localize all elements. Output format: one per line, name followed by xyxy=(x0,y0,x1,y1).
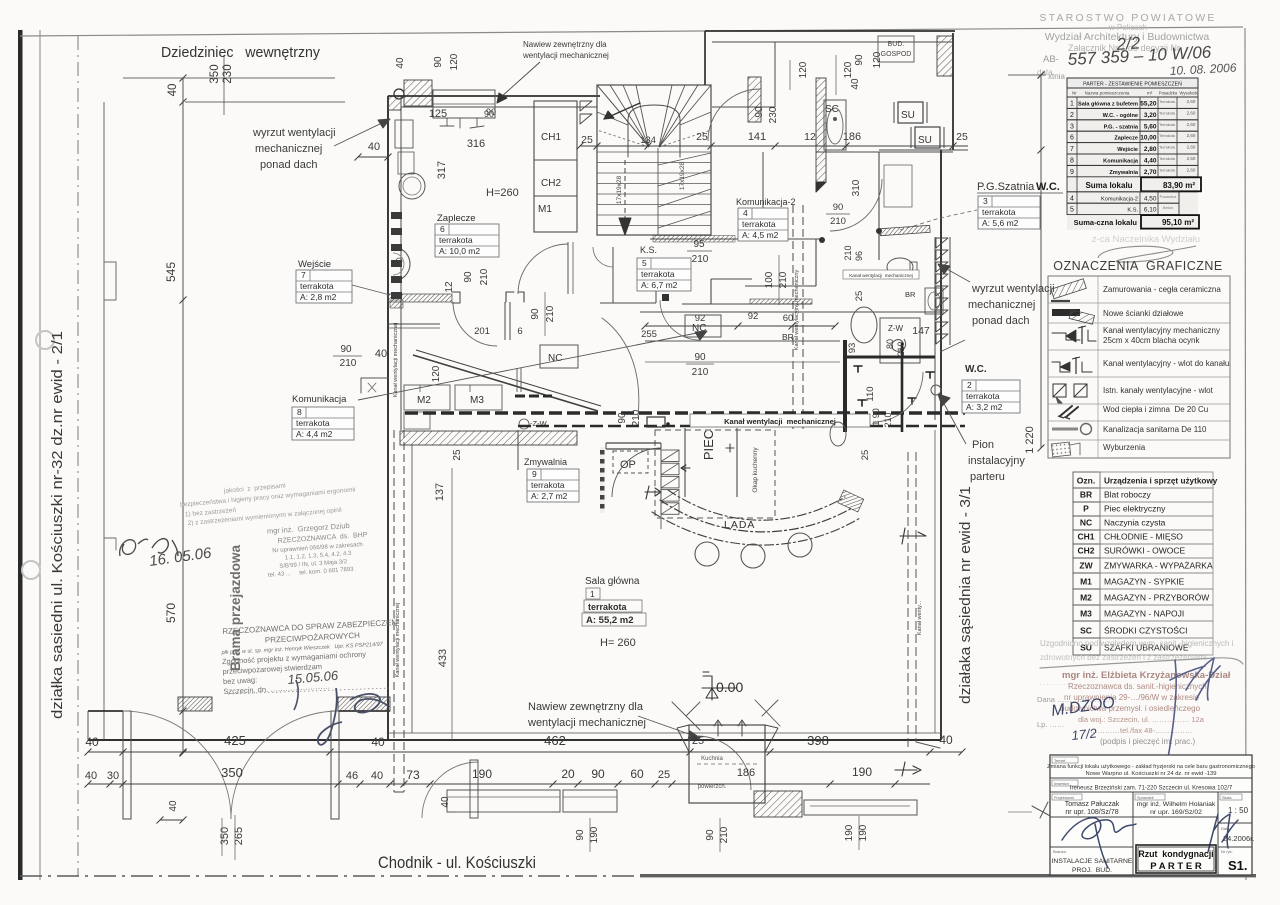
svg-text:Pion: Pion xyxy=(972,439,994,451)
svg-text:5: 5 xyxy=(1070,207,1074,214)
svg-text:Dziedziniec wewnętrzny: Dziedziniec wewnętrzny xyxy=(161,44,320,61)
svg-text:A: 3,2 m2: A: 3,2 m2 xyxy=(966,402,1003,412)
corridor top door arc xyxy=(708,89,760,141)
svg-text:210: 210 xyxy=(896,341,906,356)
svg-text:Zaplecze: Zaplecze xyxy=(1114,136,1138,142)
lada counter arc xyxy=(660,500,852,532)
svg-text:INSTALACJE SANITARNE: INSTALACJE SANITARNE xyxy=(1052,858,1133,865)
legend icon kanalizacja xyxy=(1052,428,1078,431)
door arrow glyph xyxy=(645,486,661,499)
svg-text:570: 570 xyxy=(164,603,178,623)
svg-text:2: 2 xyxy=(967,380,972,390)
svg-text:40: 40 xyxy=(168,800,179,812)
stair treads xyxy=(597,151,711,153)
svg-text:255: 255 xyxy=(641,329,657,340)
pipe tees xyxy=(858,400,866,406)
thick wall kitchen-wc xyxy=(843,340,847,432)
svg-text:125: 125 xyxy=(429,108,447,120)
BR counter lines xyxy=(645,340,840,342)
svg-text:25: 25 xyxy=(692,735,704,747)
svg-text:83,90 m²: 83,90 m² xyxy=(1163,181,1195,190)
svg-text:120: 120 xyxy=(872,51,883,68)
annex south wall xyxy=(816,151,953,153)
svg-text:CHŁODNIE - MIĘSO: CHŁODNIE - MIĘSO xyxy=(1104,532,1183,542)
svg-text:1 90: 1 90 xyxy=(871,408,881,426)
gate pier hatch left xyxy=(178,697,212,711)
handwriting oleg top xyxy=(120,539,148,556)
suma lokalu row xyxy=(1076,177,1078,192)
wejscie crosshatch wall xyxy=(388,294,452,302)
svg-text:ponad dach: ponad dach xyxy=(972,315,1030,327)
gate arc left xyxy=(123,711,231,819)
annex east wall xyxy=(952,33,954,150)
svg-text:147: 147 xyxy=(912,325,930,337)
svg-text:SU: SU xyxy=(901,110,915,121)
stair dashed diagonals xyxy=(597,130,649,147)
szatnia leader dashed xyxy=(940,210,977,218)
dashed property corner bottom-left xyxy=(87,711,89,740)
svg-text:230: 230 xyxy=(768,106,779,123)
svg-text:25: 25 xyxy=(854,291,865,302)
zaplecze basin semicircle xyxy=(393,247,410,281)
svg-text:73: 73 xyxy=(406,768,420,782)
upper annex west wall xyxy=(704,31,706,85)
svg-text:60: 60 xyxy=(630,767,644,781)
svg-text:Zmywalnia: Zmywalnia xyxy=(1109,170,1138,176)
gate leaf left xyxy=(123,711,131,819)
svg-text:Naczynia czysta: Naczynia czysta xyxy=(1104,518,1166,528)
big signature flourish xyxy=(318,688,388,745)
svg-text:Kanał wentylacyjny mechaniczny: Kanał wentylacyjny mechaniczny xyxy=(794,270,800,351)
scan frame bottom bar right xyxy=(640,874,1256,877)
svg-text:60: 60 xyxy=(783,313,794,324)
svg-text:186: 186 xyxy=(843,131,861,143)
svg-text:40: 40 xyxy=(371,770,383,782)
legend icon woda xyxy=(1060,406,1072,416)
wall stub left of M2 xyxy=(361,378,388,393)
svg-text:NC: NC xyxy=(1080,518,1092,528)
lada hatch end xyxy=(838,490,864,512)
svg-text:10,00: 10,00 xyxy=(1140,135,1157,142)
piec box xyxy=(684,428,686,497)
hatched pier right xyxy=(816,78,826,182)
stair winders lower right xyxy=(658,153,711,165)
svg-text:mechanicznej: mechanicznej xyxy=(255,143,322,155)
zaplecze door arc xyxy=(518,244,568,294)
svg-text:Tomasz Pałuczak: Tomasz Pałuczak xyxy=(1065,801,1120,808)
svg-text:46: 46 xyxy=(346,770,358,782)
NC box kitchen top xyxy=(685,315,721,337)
svg-text:Skala: Skala xyxy=(1222,796,1232,800)
svg-text:W.C.: W.C. xyxy=(1036,181,1060,193)
op vent stack xyxy=(661,450,679,462)
svg-text:95,10 m²: 95,10 m² xyxy=(1162,218,1194,227)
corridor walls step xyxy=(650,238,824,240)
svg-text:P.G.Szatnia: P.G.Szatnia xyxy=(977,181,1037,193)
handwritten date 16.05.06 xyxy=(152,539,178,556)
svg-text:3,20: 3,20 xyxy=(1144,112,1157,119)
svg-text:2,70: 2,70 xyxy=(1144,169,1157,176)
svg-text:M2: M2 xyxy=(1080,593,1092,603)
storefront hatch block xyxy=(754,791,802,817)
svg-text:PROJ. BUD.: PROJ. BUD. xyxy=(1072,867,1112,874)
svg-text:Terrakota: Terrakota xyxy=(1159,157,1176,161)
nawiew bottom leader xyxy=(638,716,700,738)
svg-text:wentylacji mechanicznej: wentylacji mechanicznej xyxy=(522,51,609,60)
stair fan lines xyxy=(597,85,649,147)
SU lockers xyxy=(898,102,923,123)
signature projektant xyxy=(1062,818,1136,868)
corridor hatched vent band xyxy=(750,299,812,304)
svg-text:M1: M1 xyxy=(1080,577,1092,587)
courtyard top boundary lines xyxy=(123,77,335,79)
title block names row xyxy=(1132,792,1134,875)
svg-text:A: 4,4 m2: A: 4,4 m2 xyxy=(296,429,333,439)
svg-text:Sala główna z bufetem: Sala główna z bufetem xyxy=(1078,102,1138,108)
svg-text:90: 90 xyxy=(854,54,865,66)
svg-text:W.C. - ogólne: W.C. - ogólne xyxy=(1103,113,1138,119)
svg-text:190: 190 xyxy=(472,767,492,781)
corridor door arc xyxy=(602,318,639,416)
east wall inner line lower xyxy=(934,430,936,733)
svg-text:Kanał wentylacji mechanicznej: Kanał wentylacji mechanicznej xyxy=(849,273,913,278)
bud gospod box xyxy=(878,36,914,62)
wyrzut left arrow xyxy=(334,122,384,146)
svg-text:PARTER - ZESTAWIENIE POMIESZCZ: PARTER - ZESTAWIENIE POMIESZCZEŃ xyxy=(1083,81,1182,88)
south wall main xyxy=(88,739,941,741)
svg-text:4,40: 4,40 xyxy=(1144,158,1157,165)
kanal went label small xyxy=(843,270,919,279)
west wall hatch strip xyxy=(388,96,401,110)
hatched pier mid annex xyxy=(748,77,761,122)
svg-text:Wyburzenia: Wyburzenia xyxy=(1103,443,1146,452)
svg-text:Nawiew zewnętrzny dla: Nawiew zewnętrzny dla xyxy=(528,701,644,713)
M2 M3 storage boxes xyxy=(404,385,450,410)
svg-text:z-ca Naczelnika Wydziału: z-ca Naczelnika Wydziału xyxy=(1092,234,1200,245)
svg-text:…………tel./fax 48-……………: …………tel./fax 48-…………… xyxy=(1090,726,1193,735)
svg-text:MAGAZYN - NAPOJI: MAGAZYN - NAPOJI xyxy=(1104,609,1184,619)
svg-text:Nr: Nr xyxy=(1072,91,1077,96)
svg-text:210: 210 xyxy=(778,271,789,288)
svg-text:210: 210 xyxy=(545,305,556,322)
svg-text:A: 6,7 m2: A: 6,7 m2 xyxy=(641,280,678,290)
svg-text:4,50: 4,50 xyxy=(1144,195,1157,202)
svg-text:Komunikacja-2: Komunikacja-2 xyxy=(736,197,796,207)
op box xyxy=(613,451,648,473)
svg-text:210: 210 xyxy=(843,245,853,260)
north wall main double xyxy=(388,95,600,97)
svg-text:Terrakota: Terrakota xyxy=(1159,111,1176,115)
svg-text:90: 90 xyxy=(433,56,444,68)
wc2 fixtures xyxy=(830,422,846,446)
svg-text:20: 20 xyxy=(561,767,575,781)
equipment table xyxy=(1073,472,1100,488)
title block inwestor row xyxy=(1050,791,1252,793)
svg-text:ponad dach: ponad dach xyxy=(260,159,318,171)
ks room wall xyxy=(655,262,657,303)
fire stamp xyxy=(219,618,401,696)
svg-text:Blat roboczy: Blat roboczy xyxy=(1104,490,1152,500)
svg-text:wyrzut wentylacji: wyrzut wentylacji xyxy=(252,127,336,139)
svg-text:wentylacji mechanicznej: wentylacji mechanicznej xyxy=(527,717,646,729)
svg-text:3: 3 xyxy=(983,196,988,206)
svg-text:MAGAZYN - SYPKIE: MAGAZYN - SYPKIE xyxy=(1104,577,1185,587)
svg-text:Zamurowania - cegła ceramiczna: Zamurowania - cegła ceramiczna xyxy=(1103,285,1221,294)
svg-text:Zmiana funkcji lokalu użytkowe: Zmiana funkcji lokalu użytkowego - zakła… xyxy=(1047,764,1255,770)
svg-text:Nr rys.: Nr rys. xyxy=(1221,849,1233,854)
dim row 92 92 60 xyxy=(645,325,835,327)
svg-text:bez uwag:: bez uwag: xyxy=(223,675,258,686)
courtyard bottom small marks xyxy=(104,538,116,550)
svg-text:Kanał wentylacyjny - wlot do k: Kanał wentylacyjny - wlot do kanału xyxy=(1103,359,1229,368)
svg-text:425: 425 xyxy=(224,733,246,748)
svg-text:110: 110 xyxy=(865,386,876,401)
svg-text:40: 40 xyxy=(368,141,380,153)
punch hole upper xyxy=(36,331,54,349)
svg-text:40: 40 xyxy=(85,735,99,749)
svg-text:4: 4 xyxy=(1070,195,1074,202)
scan frame left black bar xyxy=(18,30,23,880)
svg-text:terrakota: terrakota xyxy=(531,480,565,490)
storefront sill right xyxy=(804,800,917,815)
okap dashed rect xyxy=(655,430,775,518)
op door arc xyxy=(612,448,661,497)
svg-text:S1.: S1. xyxy=(1228,858,1248,873)
svg-text:Sprawdził: Sprawdził xyxy=(1137,796,1154,800)
svg-text:Istn. kanały wentylacyjne - wl: Istn. kanały wentylacyjne - wlot xyxy=(1103,386,1214,395)
svg-text:BR: BR xyxy=(782,332,794,342)
pion leader arrow xyxy=(942,400,966,444)
svg-text:CH1: CH1 xyxy=(1077,532,1094,542)
stair block outline xyxy=(597,85,711,235)
wejscie leader xyxy=(352,285,390,295)
punch hole lower xyxy=(22,561,40,579)
svg-text:Zaplecze: Zaplecze xyxy=(437,213,476,224)
svg-text:120: 120 xyxy=(449,53,460,70)
svg-text:141: 141 xyxy=(748,131,766,143)
svg-text:terrakota: terrakota xyxy=(982,207,1016,217)
svg-text:2,60: 2,60 xyxy=(1187,110,1196,115)
svg-text:SURÓWKI - OWOCE: SURÓWKI - OWOCE xyxy=(1104,546,1186,556)
svg-text:316: 316 xyxy=(467,138,485,150)
svg-text:398: 398 xyxy=(807,733,829,748)
svg-text:5: 5 xyxy=(642,258,647,268)
svg-text:40: 40 xyxy=(375,348,387,360)
svg-text:GOSPOD: GOSPOD xyxy=(881,51,912,58)
stair arrow NW xyxy=(604,103,640,119)
legend icon kanal wlot xyxy=(1052,362,1070,372)
svg-text:działka sasiedni ul. Kościuszk: działka sasiedni ul. Kościuszki nr-32 dz… xyxy=(50,331,66,719)
komunikacja west area walls xyxy=(387,323,440,325)
svg-text:Branża: Branża xyxy=(1053,849,1066,854)
scan frame bottom dash-dot xyxy=(20,875,640,877)
wyrzut right arrow xyxy=(945,268,970,282)
checkerboard wall strip xyxy=(600,447,605,513)
komunikacja2 west wall xyxy=(762,152,764,239)
room schedule table xyxy=(1067,78,1198,230)
ZW spiral box xyxy=(880,318,920,363)
storefront sill mid xyxy=(563,790,617,812)
NC box left kitchen xyxy=(540,345,578,368)
svg-text:120: 120 xyxy=(843,61,854,78)
svg-text:2,60: 2,60 xyxy=(1187,156,1196,161)
wc sink ellipse xyxy=(851,307,877,343)
svg-text:mgr inż. Elżbieta Krzyżanowska: mgr inż. Elżbieta Krzyżanowska-Dział xyxy=(1062,670,1231,681)
svg-text:Terrakota: Terrakota xyxy=(1159,146,1176,150)
fire stamp dotted underline xyxy=(228,688,390,694)
svg-text:8: 8 xyxy=(297,407,302,417)
svg-text:OZNACZENIA GRAFICZNE: OZNACZENIA GRAFICZNE xyxy=(1053,259,1223,273)
svg-text:(podpis i pieczęć im. prac.): (podpis i pieczęć im. prac.) xyxy=(1100,737,1195,746)
stamp1 gray quality note xyxy=(179,476,357,527)
svg-text:Kanał wenty...: Kanał wenty... xyxy=(917,600,923,635)
svg-text:210: 210 xyxy=(479,268,490,285)
svg-text:SC: SC xyxy=(1080,626,1092,636)
svg-text:9: 9 xyxy=(532,469,537,479)
svg-text:90: 90 xyxy=(530,308,541,320)
main duct horizontal thick dashed xyxy=(405,411,965,414)
svg-text:SU: SU xyxy=(918,135,932,146)
svg-text:terrakota: terrakota xyxy=(641,269,675,279)
svg-text:190: 190 xyxy=(858,824,869,841)
svg-text:nr upr. 108/Sz/78: nr upr. 108/Sz/78 xyxy=(1065,809,1118,816)
stair landing arch xyxy=(628,105,680,157)
svg-text:Komunikacja: Komunikacja xyxy=(1103,159,1139,165)
duct vertical upper with text xyxy=(792,205,794,430)
legend box xyxy=(1048,276,1230,458)
svg-text:Inwestor: Inwestor xyxy=(1054,781,1070,786)
legend icon istn kanaly xyxy=(1053,384,1066,397)
svg-text:PIEC: PIEC xyxy=(701,430,716,460)
svg-text:A: 5,6 m2: A: 5,6 m2 xyxy=(982,218,1019,228)
svg-text:17x19x28: 17x19x28 xyxy=(679,162,686,191)
svg-text:m²: m² xyxy=(1147,91,1153,96)
right small door arc xyxy=(422,762,478,818)
svg-text:8: 8 xyxy=(1070,158,1074,165)
svg-text:A: 2,8 m2: A: 2,8 m2 xyxy=(300,292,337,302)
svg-text:1 220: 1 220 xyxy=(1024,426,1036,454)
courtyard left boundary line xyxy=(103,102,105,740)
svg-text:LADA: LADA xyxy=(724,519,755,531)
svg-text:40: 40 xyxy=(371,735,385,749)
sala west inner wall line xyxy=(411,445,413,733)
svg-text:Lp. ……: Lp. …… xyxy=(1037,720,1065,729)
szatnia door arc xyxy=(830,179,882,231)
svg-text:M3: M3 xyxy=(470,395,484,406)
svg-text:CH1: CH1 xyxy=(541,132,561,143)
svg-text:Zmywalnia: Zmywalnia xyxy=(524,457,567,467)
interior wall y312 kitchen top xyxy=(640,311,941,313)
east wall aux line xyxy=(949,237,951,345)
svg-text:90: 90 xyxy=(833,202,844,213)
svg-text:2: 2 xyxy=(1070,112,1074,119)
bottom dim row1 xyxy=(183,751,962,753)
svg-text:2,60: 2,60 xyxy=(1187,99,1196,104)
svg-text:25: 25 xyxy=(860,450,871,461)
svg-text:Kanał wentylacji mechanicznej: Kanał wentylacji mechanicznej xyxy=(393,323,399,398)
svg-text:mechanicznej: mechanicznej xyxy=(968,299,1035,311)
north wall nawiew device xyxy=(433,90,495,118)
svg-text:310: 310 xyxy=(851,179,862,196)
svg-text:Suma-czna lokalu: Suma-czna lokalu xyxy=(1074,218,1138,227)
scan frame second left line xyxy=(39,30,41,880)
svg-text:9: 9 xyxy=(1070,169,1074,176)
svg-text:Posadzka: Posadzka xyxy=(1159,91,1178,96)
svg-text:90: 90 xyxy=(486,107,496,117)
svg-text:AB-: AB- xyxy=(1043,54,1059,65)
svg-text:90: 90 xyxy=(463,271,474,283)
dimension terminator left of table xyxy=(1008,74,1046,76)
svg-text:powierzch.: powierzch. xyxy=(698,784,727,790)
svg-text:P.G. - szatnia: P.G. - szatnia xyxy=(1104,124,1139,130)
signature sprawdzajacy xyxy=(1208,814,1238,852)
svg-text:90: 90 xyxy=(575,829,586,841)
svg-text:545: 545 xyxy=(164,262,178,282)
duct vertical lower-left with text xyxy=(393,430,395,792)
svg-text:2,80: 2,80 xyxy=(1144,146,1157,153)
svg-text:462: 462 xyxy=(544,733,566,748)
svg-text:A: 10,0 m2: A: 10,0 m2 xyxy=(439,246,480,256)
svg-text:Wejście: Wejście xyxy=(1117,147,1138,153)
hatched chimney top right xyxy=(937,36,953,76)
svg-text:40: 40 xyxy=(850,78,861,90)
svg-text:H= 260: H= 260 xyxy=(600,637,636,649)
upper annex interior walls xyxy=(774,42,776,107)
vestibule arrows xyxy=(714,720,722,736)
svg-text:Terrakota: Terrakota xyxy=(1159,134,1176,138)
svg-text:Posadzka: Posadzka xyxy=(1160,195,1178,199)
svg-text:Temat: Temat xyxy=(1054,758,1066,763)
svg-text:Komunikacja-2: Komunikacja-2 xyxy=(1101,196,1138,202)
duct vertical right dashed xyxy=(907,452,909,748)
circle top of duct xyxy=(394,89,404,99)
svg-text:Wysokość: Wysokość xyxy=(1179,91,1198,96)
svg-text:Beton: Beton xyxy=(1163,206,1173,210)
svg-text:Piec elektryczny: Piec elektryczny xyxy=(1104,504,1166,514)
stair center line xyxy=(657,148,659,235)
svg-text:ŚRODKI CZYSTOŚCI: ŚRODKI CZYSTOŚCI xyxy=(1104,625,1187,636)
svg-text:201: 201 xyxy=(474,326,490,337)
dim 1220 vline xyxy=(1040,75,1042,448)
counter thick dash short xyxy=(515,395,552,398)
svg-text:190: 190 xyxy=(844,824,855,841)
svg-text:25: 25 xyxy=(956,131,968,143)
corridor black mark xyxy=(662,294,669,301)
east wall main xyxy=(940,150,942,740)
svg-text:80: 80 xyxy=(885,339,895,349)
svg-text:2,60: 2,60 xyxy=(1187,145,1196,150)
svg-text:55,20: 55,20 xyxy=(1140,101,1157,108)
svg-text:Uzgodniono pod względem wym. s: Uzgodniono pod względem wym. sanit.-higi… xyxy=(1040,639,1234,648)
stair walk line with arrow xyxy=(624,160,626,222)
svg-text:Nowe Warpno ul. Kościuszki nr: Nowe Warpno ul. Kościuszki nr 24 dz. nr … xyxy=(1086,771,1217,777)
svg-text:1: 1 xyxy=(1070,101,1074,108)
svg-text:40: 40 xyxy=(85,770,97,782)
svg-text:210: 210 xyxy=(830,216,846,227)
svg-text:5,60: 5,60 xyxy=(1144,123,1157,130)
svg-text:nr upr. 169/Sz/02: nr upr. 169/Sz/02 xyxy=(1150,809,1202,816)
svg-text:1: 1 xyxy=(590,589,595,599)
svg-text:M1: M1 xyxy=(538,204,552,215)
svg-text:40: 40 xyxy=(440,796,451,808)
lada stools xyxy=(695,542,719,566)
building west wall xyxy=(387,96,389,740)
svg-text:Suma lokalu: Suma lokalu xyxy=(1085,181,1132,190)
svg-text:ZMYWARKA - WYPAŻARKA: ZMYWARKA - WYPAŻARKA xyxy=(1104,561,1213,571)
title block temat row xyxy=(1050,777,1252,779)
vent stack arrow xyxy=(681,465,690,471)
svg-text:25cm x 40cm blacha ocynk: 25cm x 40cm blacha ocynk xyxy=(1103,336,1200,345)
